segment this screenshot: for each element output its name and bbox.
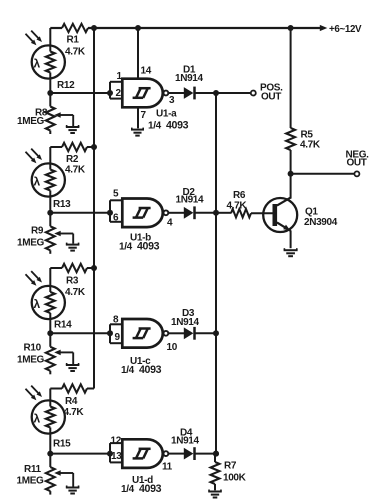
svg-text:Q1: Q1 bbox=[305, 207, 318, 218]
svg-text:1MEG: 1MEG bbox=[17, 116, 45, 127]
svg-text:4093: 4093 bbox=[137, 241, 160, 253]
svg-text:4.7K: 4.7K bbox=[300, 140, 321, 151]
svg-text:U1-a: U1-a bbox=[156, 109, 177, 120]
svg-text:R7: R7 bbox=[224, 461, 237, 472]
svg-text:12: 12 bbox=[111, 436, 122, 447]
svg-text:1N914: 1N914 bbox=[171, 436, 200, 447]
svg-text:1N914: 1N914 bbox=[176, 195, 205, 206]
svg-text:1/4: 1/4 bbox=[121, 365, 135, 376]
svg-text:1MEG: 1MEG bbox=[17, 238, 45, 249]
svg-text:R10: R10 bbox=[24, 343, 42, 354]
svg-text:4.7K: 4.7K bbox=[227, 201, 248, 212]
svg-text:4.7K: 4.7K bbox=[65, 165, 86, 176]
svg-text:1: 1 bbox=[117, 71, 123, 82]
svg-text:1MEG: 1MEG bbox=[17, 476, 45, 487]
svg-text:4.7K: 4.7K bbox=[65, 47, 86, 58]
svg-text:1/4: 1/4 bbox=[148, 121, 162, 132]
svg-text:+6~12V: +6~12V bbox=[329, 24, 362, 35]
svg-text:4093: 4093 bbox=[139, 483, 162, 495]
svg-text:14: 14 bbox=[141, 66, 152, 77]
svg-text:R3: R3 bbox=[66, 276, 79, 287]
svg-text:4093: 4093 bbox=[139, 364, 162, 376]
svg-text:λ: λ bbox=[34, 412, 41, 426]
svg-text:R14: R14 bbox=[54, 320, 72, 331]
svg-text:8: 8 bbox=[113, 315, 119, 326]
svg-text:R2: R2 bbox=[66, 154, 79, 165]
svg-text:λ: λ bbox=[34, 57, 41, 71]
svg-text:3: 3 bbox=[169, 95, 175, 106]
svg-text:7: 7 bbox=[141, 110, 147, 121]
svg-text:9: 9 bbox=[115, 332, 121, 343]
svg-text:4.7K: 4.7K bbox=[65, 287, 86, 298]
svg-text:6: 6 bbox=[113, 213, 119, 224]
svg-text:13: 13 bbox=[111, 451, 122, 462]
svg-text:OUT: OUT bbox=[347, 158, 367, 169]
svg-text:1/4: 1/4 bbox=[119, 242, 133, 253]
svg-text:2: 2 bbox=[116, 88, 122, 99]
svg-text:R13: R13 bbox=[53, 199, 71, 210]
svg-text:OUT: OUT bbox=[261, 92, 281, 103]
svg-text:4093: 4093 bbox=[166, 120, 189, 132]
svg-text:1/4: 1/4 bbox=[121, 484, 135, 495]
svg-text:4: 4 bbox=[167, 218, 173, 229]
svg-text:R4: R4 bbox=[65, 396, 78, 407]
svg-text:4.7K: 4.7K bbox=[64, 407, 85, 418]
svg-text:2N3904: 2N3904 bbox=[304, 217, 338, 228]
svg-text:5: 5 bbox=[113, 189, 119, 200]
svg-text:1N914: 1N914 bbox=[175, 73, 204, 84]
svg-text:R15: R15 bbox=[53, 439, 71, 450]
svg-text:1MEG: 1MEG bbox=[17, 355, 45, 366]
svg-text:λ: λ bbox=[34, 297, 41, 311]
svg-text:1N914: 1N914 bbox=[171, 317, 200, 328]
svg-text:R1: R1 bbox=[67, 35, 80, 46]
svg-text:λ: λ bbox=[34, 175, 41, 189]
svg-text:R12: R12 bbox=[57, 80, 75, 91]
svg-text:R9: R9 bbox=[31, 226, 44, 237]
svg-text:100K: 100K bbox=[223, 473, 247, 484]
svg-text:R6: R6 bbox=[233, 190, 246, 201]
svg-text:11: 11 bbox=[162, 462, 173, 473]
svg-text:R11: R11 bbox=[24, 464, 42, 475]
svg-text:10: 10 bbox=[167, 342, 178, 353]
